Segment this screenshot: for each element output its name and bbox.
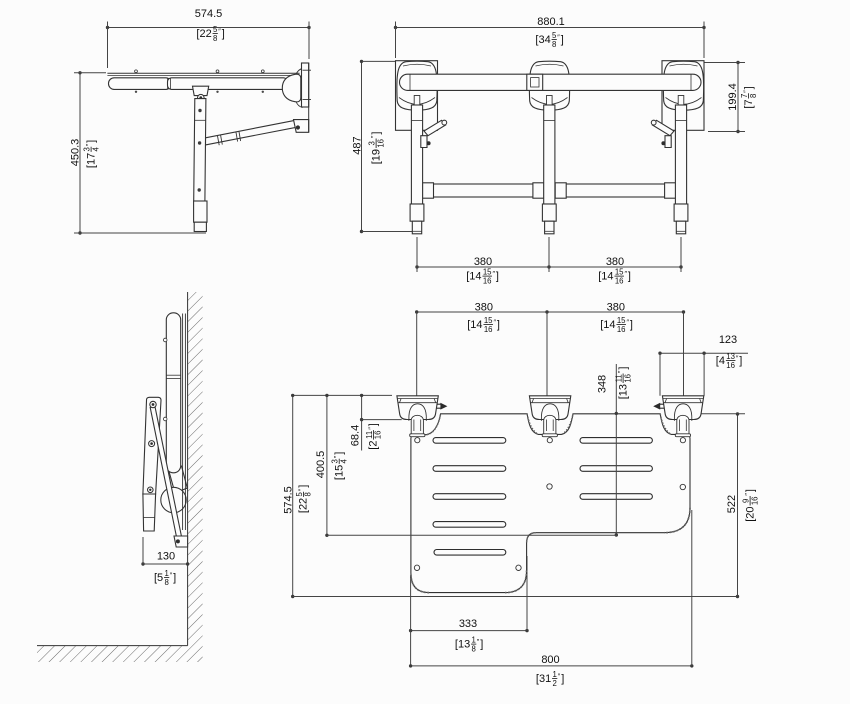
svg-text:380: 380 [606,256,624,268]
svg-text:16: 16 [750,496,759,505]
svg-text:]: ] [370,132,382,135]
svg-text:380: 380 [475,301,493,313]
svg-text:[20: [20 [744,506,756,521]
svg-text:16: 16 [376,139,385,148]
svg-text:9: 9 [742,499,751,503]
svg-text:8: 8 [552,40,556,49]
svg-text:880.1: 880.1 [537,16,565,28]
svg-text:]: ] [173,572,176,584]
svg-text:16: 16 [483,276,492,285]
svg-text:[34: [34 [535,34,550,46]
svg-text:1: 1 [164,569,168,578]
svg-text:]: ] [744,489,756,492]
svg-text:16: 16 [617,325,626,334]
svg-text:8: 8 [749,94,758,98]
svg-text:450.3: 450.3 [69,139,81,167]
svg-text:4: 4 [339,458,348,463]
svg-text:[13: [13 [617,384,629,399]
svg-text:[31: [31 [536,673,551,685]
svg-text:16: 16 [615,276,624,285]
svg-text:]: ] [222,28,225,40]
svg-text:522: 522 [726,495,738,513]
svg-text:15: 15 [615,268,624,277]
svg-text:8: 8 [472,644,476,653]
svg-text:574.5: 574.5 [282,486,294,514]
svg-text:1: 1 [472,636,476,645]
svg-text:[5: [5 [154,572,163,584]
svg-text:15: 15 [484,316,493,325]
svg-text:16: 16 [623,374,632,383]
svg-text:]: ] [561,673,564,685]
svg-text:]: ] [496,270,499,282]
svg-text:8: 8 [213,34,217,43]
svg-text:[17: [17 [85,153,97,168]
svg-text:]: ] [628,270,631,282]
svg-text:11: 11 [365,431,374,439]
svg-text:]: ] [334,452,346,455]
svg-text:[19: [19 [370,149,382,164]
svg-text:]: ] [480,638,483,650]
svg-text:]: ] [630,319,633,331]
svg-text:[4: [4 [716,355,725,367]
svg-text:[2: [2 [368,441,380,450]
svg-text:400.5: 400.5 [315,451,327,479]
svg-text:11: 11 [615,374,624,382]
svg-text:333: 333 [459,618,477,630]
svg-text:3: 3 [368,141,377,145]
svg-text:[14: [14 [466,270,481,282]
svg-text:130: 130 [157,550,175,562]
svg-text:380: 380 [474,256,492,268]
svg-text:487: 487 [351,136,363,154]
svg-text:4: 4 [91,146,100,151]
svg-text:]: ] [298,485,310,488]
svg-text:13: 13 [726,352,735,361]
svg-text:380: 380 [607,301,625,313]
svg-text:8: 8 [164,578,168,587]
svg-text:800: 800 [541,654,559,666]
svg-text:]: ] [743,86,755,89]
svg-text:16: 16 [374,431,383,440]
svg-text:123: 123 [719,334,737,346]
svg-text:[14: [14 [598,270,613,282]
svg-text:[14: [14 [467,319,482,331]
svg-text:[22: [22 [298,498,310,513]
svg-text:3: 3 [331,459,340,463]
svg-text:]: ] [739,355,742,367]
svg-text:16: 16 [726,361,735,370]
svg-text:[15: [15 [334,465,346,480]
svg-text:15: 15 [483,268,492,277]
svg-text:5: 5 [213,25,218,34]
svg-text:199.4: 199.4 [727,83,739,111]
svg-text:[7: [7 [743,99,755,108]
svg-text:16: 16 [484,325,493,334]
svg-text:8: 8 [304,492,313,496]
svg-text:574.5: 574.5 [195,8,223,20]
svg-text:[13: [13 [455,638,470,650]
svg-text:5: 5 [552,31,557,40]
svg-text:]: ] [497,319,500,331]
svg-text:348: 348 [597,375,609,393]
svg-text:]: ] [561,34,564,46]
svg-text:[22: [22 [196,28,211,40]
svg-text:5: 5 [295,491,304,496]
svg-text:3: 3 [83,147,92,151]
svg-text:7: 7 [740,94,749,98]
svg-text:15: 15 [617,316,626,325]
svg-text:2: 2 [553,679,557,688]
svg-text:]: ] [368,423,380,426]
svg-text:]: ] [85,140,97,143]
svg-text:[14: [14 [600,319,615,331]
svg-text:68.4: 68.4 [349,425,361,446]
svg-text:1: 1 [553,670,557,679]
svg-text:]: ] [617,367,629,370]
